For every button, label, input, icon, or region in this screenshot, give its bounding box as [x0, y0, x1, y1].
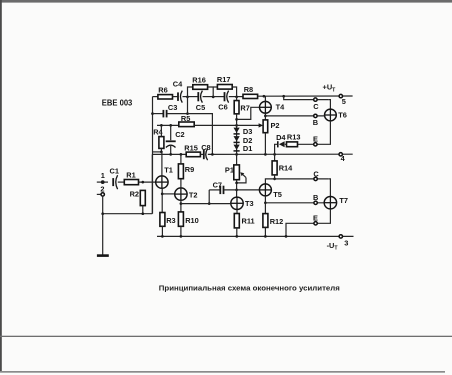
capacitor C2 electrolytic: [166, 141, 176, 147]
wire C7 drop to T3 base row: [208, 190, 210, 204]
svg-text:C1: C1: [110, 166, 119, 175]
junction T6 base branch: [264, 115, 267, 118]
wire node B riser to R17: [213, 86, 217, 88]
wire R1 to T1 base: [139, 181, 156, 183]
svg-text:E: E: [313, 214, 318, 223]
svg-text:D3: D3: [243, 127, 252, 136]
resistor R2: [140, 190, 145, 205]
junction T7 emitter on rail: [285, 235, 288, 238]
svg-text:R15: R15: [184, 143, 198, 152]
svg-text:R10: R10: [185, 216, 199, 225]
svg-text:R16: R16: [192, 75, 206, 84]
wire T2 collector lead: [180, 164, 182, 188]
wire R13 to D4: [285, 143, 287, 145]
svg-text:T1: T1: [164, 165, 173, 174]
junction T5 base row on T3 collector: [235, 189, 238, 192]
wire lower left rail: [151, 154, 153, 213]
resistor R14: [272, 161, 277, 175]
resistor R10: [178, 212, 183, 226]
resistor R5: [179, 122, 194, 127]
svg-text:R5: R5: [181, 114, 190, 123]
wire R2 bottom lead: [142, 206, 144, 214]
svg-text:C2: C2: [175, 130, 184, 139]
wire R7 bottom lead: [236, 114, 238, 126]
wire C6 to node C: [229, 96, 243, 98]
wire D4 to mid row: [275, 144, 278, 154]
svg-text:EBE 003: EBE 003: [102, 99, 133, 108]
junction node C (R7 top): [235, 96, 238, 99]
svg-text:Принципиальная схема оконечног: Принципиальная схема оконечного усилител…: [159, 283, 340, 292]
svg-text:T5: T5: [273, 190, 282, 199]
junction R12 on rail: [264, 235, 267, 238]
wire R6 to C4: [173, 96, 178, 98]
resistor R6: [158, 95, 173, 99]
wire C7 right lead to T5 base: [224, 189, 259, 191]
wire R14 top lead: [274, 154, 276, 161]
wire C3 to riser: [167, 113, 188, 115]
svg-text:R12: R12: [270, 217, 284, 226]
svg-text:R2: R2: [130, 190, 139, 199]
svg-text:C3: C3: [168, 103, 177, 112]
svg-text:R7: R7: [240, 104, 249, 113]
resistor R7: [234, 101, 239, 114]
junction C2 top: [169, 124, 172, 127]
terminal B (T7): [314, 201, 317, 204]
capacitor C1: [113, 175, 117, 189]
capacitor C6: [225, 91, 229, 103]
wire T2 emitter lead: [180, 200, 182, 212]
wire T4 emitter to P2: [264, 113, 266, 120]
junction T5 emitter / B row: [264, 201, 267, 204]
capacitor C8: [204, 149, 208, 161]
diode D3: [234, 127, 253, 136]
resistor R3: [160, 213, 165, 227]
terminal E (T6): [314, 143, 317, 146]
wire left feedback rail: [152, 97, 154, 214]
wire riser node A down: [187, 97, 189, 114]
resistor R17: [217, 85, 232, 90]
junction T4 collector on rail: [263, 95, 266, 98]
transistor T6: [325, 109, 347, 121]
wire T4 base step: [237, 107, 260, 119]
wire R11 bottom lead: [236, 228, 238, 237]
junction node A (C4/R16/C5): [186, 96, 189, 99]
wire R4 bottom lead: [160, 148, 162, 152]
wire riser node A to R16: [188, 87, 194, 97]
junction P2 bottom: [264, 153, 267, 156]
wire ground row: [103, 213, 153, 215]
diode D1: [234, 144, 253, 153]
capacitor C5: [198, 91, 202, 103]
resistor R15: [186, 152, 200, 157]
transistor T2: [175, 188, 198, 200]
svg-text:1: 1: [101, 171, 105, 180]
wire T5 collector to C row: [265, 179, 328, 184]
svg-text:3: 3: [344, 239, 348, 248]
potentiometer P1 body: [234, 165, 240, 180]
svg-text:R3: R3: [166, 216, 175, 225]
svg-text:R14: R14: [279, 163, 293, 172]
transistor T1: [156, 165, 173, 188]
resistor R12: [263, 214, 268, 228]
svg-text:T4: T4: [276, 103, 286, 112]
junction C3 row / riser: [186, 112, 189, 115]
wire R5 row left: [157, 124, 179, 126]
junction diode chain top: [235, 124, 238, 127]
svg-text:B: B: [313, 193, 318, 202]
wire T1 to T2 base: [162, 193, 175, 195]
wire C2 top lead: [170, 125, 172, 140]
wire C2 bottom lead: [170, 146, 172, 154]
terminal C (T6): [314, 98, 317, 101]
wire T3 emitter lead: [236, 210, 238, 214]
svg-text:P1: P1: [225, 166, 234, 175]
wire node to C5: [188, 96, 199, 98]
terminal 4: [339, 153, 342, 156]
svg-text:C6: C6: [218, 102, 227, 111]
wire T1 collector: [161, 152, 163, 176]
svg-text:T7: T7: [339, 196, 348, 205]
wire node B to C6: [213, 96, 224, 98]
svg-text:T3: T3: [245, 199, 254, 208]
wire R17 to node C: [232, 87, 236, 97]
junction T2 emitter / T3 base row: [180, 202, 183, 205]
transistor T5: [259, 184, 281, 199]
wire T6 base row: [265, 115, 324, 117]
resistor R9: [178, 164, 183, 179]
junction R4 bottom / T1 collector: [160, 151, 163, 154]
resistor R1: [124, 180, 138, 185]
wire diode node to P2 arrow: [237, 124, 260, 126]
wire rail branch to R4 node: [153, 151, 162, 153]
wire P1 bottom / T3 collector: [236, 180, 238, 197]
wire C3 row over to mid row: [188, 114, 213, 155]
wire P1 top lead: [236, 154, 238, 165]
wire input 2 stub: [97, 193, 101, 195]
wire P2 bottom lead: [264, 133, 266, 155]
wire R15 to C8: [200, 153, 203, 155]
junction R2 top: [141, 181, 144, 184]
svg-text:R11: R11: [242, 216, 255, 225]
svg-text:C: C: [313, 170, 319, 179]
transistor T3: [231, 197, 254, 209]
junction C3 on rail: [151, 112, 154, 115]
wire T4 collector riser: [264, 96, 266, 101]
wire B row to T7: [265, 202, 324, 204]
diode D2: [234, 136, 253, 145]
junction T1 emitter / T2 base: [161, 193, 164, 196]
wiper arrow of P2: [259, 123, 264, 127]
wire C row corner down to T7: [329, 179, 331, 197]
wire T7 emitter to E terminal: [286, 209, 330, 237]
junction R2 bottom: [141, 212, 144, 215]
junction C7 on T2-T3 row: [208, 202, 211, 205]
terminal B (T6): [314, 114, 317, 117]
wire C8 to mid nodes: [208, 153, 353, 155]
ground: [97, 254, 109, 257]
wire R4 top lead: [160, 125, 162, 136]
transistor T4: [260, 101, 286, 113]
junction P1 wiper tie: [235, 182, 238, 185]
svg-text:C4: C4: [173, 80, 183, 89]
junction R11 on rail: [235, 235, 238, 238]
svg-text:R1: R1: [126, 170, 135, 179]
junction T4 base branch: [235, 118, 238, 121]
svg-text:D1: D1: [243, 144, 252, 153]
svg-text:R13: R13: [287, 132, 301, 141]
wire R10 bottom lead: [180, 226, 182, 236]
wire rail to C terminal of T6: [284, 96, 329, 99]
wire R12 bottom lead: [264, 227, 266, 236]
svg-text:C: C: [313, 102, 319, 111]
resistor R11: [234, 214, 239, 228]
wire top row rail to R6: [153, 96, 159, 98]
wire bottom -Ut rail: [157, 235, 354, 237]
junction node B (R16/R17): [212, 96, 215, 99]
svg-text:R17: R17: [217, 75, 231, 84]
junction C2 bottom: [169, 153, 172, 156]
svg-text:T6: T6: [338, 111, 347, 120]
wire C4 to node: [183, 96, 188, 98]
wire R16 to node B: [208, 87, 214, 97]
wiper arrow of P1: [237, 172, 246, 183]
svg-text:E: E: [313, 135, 318, 144]
wire R9 top lead: [180, 154, 182, 164]
wire rail to C3: [153, 113, 164, 115]
wire T2 to T3 base row: [181, 203, 231, 205]
wire mid row left segment: [152, 153, 186, 155]
svg-text:4: 4: [341, 154, 346, 163]
wire C terminal corner down to T6: [329, 100, 331, 110]
junction R4 top: [160, 124, 163, 127]
junction R9 top: [180, 153, 183, 156]
svg-text:B: B: [313, 118, 318, 127]
capacitor C7: [220, 186, 223, 194]
svg-text:5: 5: [342, 97, 346, 106]
junction T6 branch on rail: [282, 95, 285, 98]
wire diode chain lead: [236, 125, 238, 154]
svg-text:C8: C8: [201, 143, 210, 152]
terminal 2: [101, 193, 104, 196]
wire +Ut rail: [258, 95, 353, 97]
wire T5 emitter lead: [264, 196, 266, 214]
terminal C (T7): [314, 177, 317, 180]
wire T6 emitter to E terminal: [298, 121, 331, 144]
wire R5 to diode node: [194, 124, 236, 126]
junction R14 bottom / C row: [273, 178, 276, 181]
svg-text:D4: D4: [276, 133, 286, 142]
junction diode bottom / P1 top: [235, 153, 238, 156]
capacitor C3: [163, 110, 166, 118]
junction R3 on rail: [161, 235, 164, 238]
wire input 1 stub: [97, 181, 108, 183]
wire T1 emitter lead: [161, 188, 163, 212]
terminal 5: [339, 94, 342, 97]
resistor R4: [159, 137, 164, 149]
svg-text:+UT: +UT: [323, 83, 337, 94]
svg-text:T2: T2: [189, 191, 198, 200]
junction ground row / input: [101, 212, 104, 215]
junction R10 on rail: [180, 235, 183, 238]
transistor T7: [324, 196, 348, 209]
wire ground drop: [102, 214, 104, 255]
resistor R16: [193, 85, 208, 90]
resistor R8: [243, 94, 258, 98]
wire R14 bottom lead: [274, 175, 276, 179]
terminal 3: [339, 235, 342, 238]
wire R3 bottom lead: [161, 226, 163, 236]
wire C7 left lead: [209, 189, 220, 191]
svg-text:P2: P2: [271, 121, 280, 130]
junction C3 riser on mid row: [211, 153, 214, 156]
diode D4: [276, 133, 286, 148]
svg-text:C5: C5: [196, 103, 205, 112]
svg-text:R6: R6: [158, 85, 167, 94]
wire C5 to node B: [203, 96, 214, 98]
resistor R13: [287, 142, 298, 147]
wire C1 to R1: [118, 181, 124, 183]
junction D4/R14 column: [273, 153, 276, 156]
wire terminal 2 down: [102, 196, 104, 214]
wire R7 top lead: [236, 97, 238, 101]
terminal E (T7): [314, 222, 317, 225]
terminal 1: [101, 180, 105, 184]
svg-text:R8: R8: [244, 85, 253, 94]
svg-text:R9: R9: [185, 165, 194, 174]
capacitor C4: [178, 91, 182, 103]
svg-text:-UT: -UT: [327, 241, 339, 252]
potentiometer P2 body: [263, 120, 268, 133]
